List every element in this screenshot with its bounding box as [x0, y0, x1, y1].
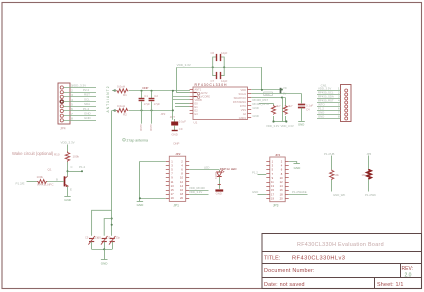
- svg-text:19: 19: [171, 196, 174, 200]
- capacitor C1: [139, 91, 145, 124]
- wire CN1 pin2: [317, 94, 341, 96]
- svg-text:P1.2/E: P1.2/E: [16, 181, 25, 185]
- node crystal cap right rail: [223, 66, 225, 68]
- svg-text:17: 17: [171, 192, 174, 196]
- connector JP4 (left 8-pin header): [58, 83, 70, 124]
- svg-text:LED1: LED1: [214, 172, 218, 179]
- svg-text:VDD_3.3V: VDD_3.3V: [61, 141, 75, 145]
- wire CN1 pin8: [317, 118, 341, 120]
- svg-text:VDD_3.3V: VDD_3.3V: [72, 83, 86, 87]
- wire JP1 pin19 to gnd rail: [140, 198, 166, 200]
- title block outline: [262, 234, 422, 289]
- wire CN1 pin6: [317, 110, 341, 112]
- svg-text:GND: GND: [84, 112, 92, 116]
- connector CN1 (right 8-pin header): [341, 85, 352, 122]
- wire ANT2 to bus: [129, 110, 173, 112]
- wire CN1 pin3: [317, 98, 341, 100]
- svg-text:GND: GND: [216, 192, 222, 196]
- svg-text:P2.2: P2.2: [83, 88, 90, 92]
- capacitor C2: [149, 91, 155, 124]
- svg-text:19: 19: [271, 196, 274, 200]
- svg-text:0.0uH: 0.0uH: [117, 84, 125, 88]
- node SDA drop: [281, 97, 283, 99]
- svg-text:VDDB: VDDB: [195, 98, 202, 102]
- wire bus stub pin4: [173, 99, 190, 101]
- wire R10 to collector node: [67, 162, 69, 177]
- wire JP1 pin1 to gnd rail: [140, 161, 166, 163]
- antenna stub arrow bottom: [112, 109, 115, 112]
- node gnd rail: [139, 197, 141, 199]
- wire U1 SCL row: [251, 93, 301, 95]
- node bus R2 crossing: [172, 109, 174, 111]
- node VDD row junction: [261, 89, 263, 91]
- wire CN1 pin5: [317, 106, 341, 108]
- ground LED bold flag: [215, 191, 223, 196]
- wire CN1 pin4: [317, 102, 341, 104]
- connector JP1 (2x10 header) body: [169, 156, 185, 201]
- ground C9: [172, 131, 178, 137]
- node rail right: [285, 120, 287, 122]
- svg-text:15: 15: [171, 188, 174, 192]
- svg-text:WAKE_NFC: WAKE_NFC: [37, 182, 54, 186]
- resistor R3 pull-up: [272, 104, 276, 122]
- node trunk dot: [111, 224, 113, 226]
- wire pull-up bottom rail: [274, 121, 287, 123]
- svg-text:12pF: 12pF: [221, 79, 228, 83]
- green caption 2 tap antenna: [123, 139, 148, 143]
- svg-text:GND: GND: [172, 132, 178, 136]
- svg-text:RF430CL330H Evaluation Board: RF430CL330H Evaluation Board: [297, 242, 384, 248]
- wire left bus vertical: [172, 91, 174, 120]
- svg-text:C4: C4: [306, 108, 310, 112]
- svg-text:C2: C2: [154, 94, 158, 98]
- svg-text:SCL: SCL: [265, 92, 271, 96]
- U1 left pin stubs: [190, 90, 193, 114]
- svg-text:SDA/POCI: SDA/POCI: [234, 96, 247, 100]
- svg-text:E0: E0: [195, 101, 199, 105]
- svg-text:23p: 23p: [116, 236, 121, 240]
- svg-text:P1.2/WK: P1.2/WK: [365, 193, 376, 197]
- JP4 green pin numbers: [71, 85, 73, 121]
- svg-text:B: B: [56, 178, 58, 182]
- supply tick bar on VDD row: [280, 88, 282, 94]
- wire to ground: [104, 249, 106, 259]
- svg-text:JP3: JP3: [273, 204, 279, 208]
- svg-text:20: 20: [280, 196, 283, 200]
- wire trim cap bottom rail: [92, 249, 113, 251]
- svg-text:2 tap antenna: 2 tap antenna: [127, 139, 148, 143]
- svg-text:10: 10: [180, 176, 183, 180]
- wire CN1 pin1: [317, 90, 341, 92]
- svg-text:Wake circuit (optional): Wake circuit (optional): [12, 151, 54, 156]
- svg-text:12: 12: [280, 180, 283, 184]
- svg-text:100k: 100k: [73, 155, 80, 159]
- svg-text:P1.2: P1.2: [83, 107, 90, 111]
- svg-text:1M: 1M: [362, 173, 367, 177]
- capacitor C4 bypass: [298, 94, 305, 121]
- U1 pin3 bubble marker: [194, 96, 200, 99]
- svg-text:VDD: VDD: [241, 88, 247, 92]
- wire SDA drop to rail: [282, 98, 284, 122]
- svg-text:GND: GND: [294, 166, 302, 170]
- wire branch to CT1: [92, 210, 112, 236]
- ground JP3: [294, 164, 302, 170]
- svg-text:VDD_3.3V: VDD_3.3V: [281, 124, 294, 128]
- wire base segment: [27, 181, 38, 183]
- svg-text:P1.2: P1.2: [252, 171, 258, 175]
- resistor R5: [330, 156, 334, 192]
- JP1 pin numbers: [171, 159, 184, 200]
- node rail left: [272, 120, 274, 122]
- JP1 right pin stubs: [186, 162, 190, 199]
- wire JP4 pin8: [63, 120, 96, 122]
- svg-text:R1: R1: [123, 93, 127, 97]
- capacitor C9 bold (VCORE): [171, 123, 178, 131]
- JP3 right pin stubs: [285, 162, 289, 199]
- svg-text:GND: GND: [137, 203, 145, 207]
- wire JP4 pin4: [63, 101, 96, 103]
- svg-text:12pF: 12pF: [221, 51, 228, 55]
- svg-text:GND: GND: [101, 262, 109, 266]
- svg-text:P1.2/WAKE: P1.2/WAKE: [292, 190, 307, 194]
- wire bus stub pin5: [175, 103, 190, 105]
- capacitor C7 bottom parallel: [213, 67, 225, 79]
- wire JP3 pin2 to gnd: [289, 162, 297, 164]
- svg-text:SDA: SDA: [84, 102, 90, 106]
- svg-text:C6: C6: [211, 51, 215, 55]
- svg-text:Sheet: 1/1: Sheet: 1/1: [377, 282, 404, 288]
- wire JP1 pin16: [189, 190, 208, 192]
- svg-text:12: 12: [180, 180, 183, 184]
- svg-text:VDD_3.3V: VDD_3.3V: [189, 190, 202, 194]
- wire bus stub pin6: [175, 106, 190, 108]
- JP1 left pin stubs: [166, 162, 170, 199]
- svg-text:16: 16: [180, 188, 183, 192]
- svg-text:17pF: 17pF: [144, 102, 151, 106]
- svg-text:GND: GND: [149, 125, 153, 131]
- svg-text:17pF: 17pF: [154, 102, 161, 106]
- U1 pin2 bubble marker: [194, 92, 200, 95]
- wire JP4 pin6: [63, 110, 96, 112]
- node bottom rail: [103, 248, 105, 250]
- node C2 bottom crossing: [151, 109, 153, 111]
- wire VDD drop right side: [261, 67, 263, 90]
- node bus top: [172, 90, 174, 92]
- JP3 left pin stubs: [266, 162, 270, 199]
- wire VDD stub to U1 pin2: [177, 92, 190, 94]
- capacitor C6 top parallel: [213, 54, 225, 67]
- svg-text:Q1: Q1: [48, 167, 52, 171]
- svg-text:RF430CL330H: RF430CL330H: [195, 83, 228, 87]
- wire JP4 pin2: [63, 92, 96, 94]
- svg-text:P1.2: P1.2: [79, 165, 86, 169]
- svg-text:10: 10: [280, 176, 283, 180]
- svg-text:JP6: JP6: [366, 152, 371, 156]
- wire branch to CT2: [104, 219, 112, 236]
- svg-text:2.0: 2.0: [405, 273, 412, 279]
- svg-text:P1.2/UB: P1.2/UB: [324, 152, 335, 156]
- svg-text:GND: GND: [253, 106, 259, 110]
- wire antenna stub top: [112, 90, 116, 92]
- svg-text:17: 17: [271, 192, 274, 196]
- wire VDD drop to left bus: [176, 67, 178, 93]
- svg-text:GND: GND: [253, 114, 259, 118]
- wire R3 feed: [259, 103, 274, 105]
- wire bus stub pin3: [173, 96, 190, 98]
- svg-text:18: 18: [280, 192, 283, 196]
- wire emitter: [67, 186, 69, 196]
- svg-text:0.1uF: 0.1uF: [179, 119, 186, 123]
- svg-text:SCL: SCL: [84, 97, 90, 101]
- wire JP4 pin3: [63, 96, 96, 98]
- svg-text:JP2: JP2: [161, 112, 166, 116]
- svg-text:TITLE:: TITLE:: [264, 255, 280, 261]
- connector JP3 (2x10 header) body: [270, 157, 285, 202]
- wire gnd rail vertical: [139, 161, 141, 201]
- node branch CT2: [111, 218, 113, 220]
- svg-text:GND: GND: [64, 198, 72, 202]
- wire JP3 pin18 right: [289, 194, 308, 196]
- JP3 pin numbers: [271, 160, 283, 201]
- svg-text:16: 16: [280, 188, 283, 192]
- wire U1 SDA row: [251, 97, 285, 99]
- svg-text:ANT1: ANT1: [195, 87, 202, 91]
- node C1 bottom crossing: [141, 109, 143, 111]
- svg-text:A2: A2: [243, 112, 247, 116]
- svg-text:GND: GND: [139, 125, 143, 131]
- svg-text:GND: GND: [84, 116, 92, 120]
- wire collector tap: [68, 171, 83, 173]
- svg-text:4k7: 4k7: [288, 104, 293, 108]
- svg-text:RF430CL330HLv3: RF430CL330HLv3: [292, 256, 345, 262]
- svg-text:C5: C5: [85, 236, 89, 240]
- svg-text:18: 18: [180, 192, 183, 196]
- svg-text:E2: E2: [195, 108, 199, 112]
- node C2 tap: [151, 90, 153, 92]
- svg-text:RST: RST: [84, 93, 90, 97]
- resistor R11 100k horizontal: [37, 180, 47, 184]
- svg-text:14: 14: [180, 184, 183, 188]
- svg-text:C: C: [71, 165, 73, 169]
- svg-text:Document Number:: Document Number:: [264, 268, 315, 274]
- svg-text:ANT2: ANT2: [201, 91, 208, 95]
- svg-text:0.0uH: 0.0uH: [117, 104, 125, 108]
- node crystal cap left rail: [212, 66, 214, 68]
- resistor R1 0R0 horizontal: [116, 89, 128, 93]
- svg-text:C9: C9: [179, 127, 183, 131]
- svg-text:11: 11: [171, 180, 174, 184]
- resistor R6: [367, 156, 371, 192]
- wire JP1 pin6 to LED: [189, 169, 219, 171]
- wire antenna stub bottom: [112, 110, 116, 112]
- wire VDD rail across top: [177, 67, 262, 69]
- ground C4: [298, 122, 305, 127]
- svg-text:C6: C6: [98, 236, 102, 240]
- svg-text:DNP: DNP: [143, 86, 149, 90]
- svg-text:13: 13: [271, 184, 274, 188]
- svg-text:20: 20: [180, 196, 183, 200]
- svg-text:E3: E3: [195, 112, 199, 116]
- svg-text:C1: C1: [144, 94, 148, 98]
- svg-text:LED: LED: [204, 166, 209, 170]
- svg-text:Date: not saved: Date: not saved: [264, 282, 305, 288]
- svg-text:REV:: REV:: [402, 266, 413, 272]
- svg-text:DNP: DNP: [174, 141, 180, 145]
- wire ANT1 to U1: [129, 90, 190, 92]
- svg-text:E1: E1: [195, 105, 199, 109]
- LED D1: [217, 170, 225, 189]
- svg-text:10k: 10k: [334, 173, 339, 177]
- svg-text:VD: VD: [283, 86, 287, 90]
- wire JP4 pin1: [63, 87, 96, 89]
- resistor R2 0R0 horizontal: [116, 108, 128, 112]
- svg-text:GND: GND: [252, 190, 258, 194]
- trimmer capacitor CT1: [88, 236, 94, 249]
- svg-text:INTO: INTO: [240, 104, 246, 108]
- svg-text:C7: C7: [211, 79, 215, 83]
- svg-text:VSS: VSS: [241, 108, 246, 112]
- wire JP3 pin9 left: [258, 174, 267, 176]
- svg-text:4k7: 4k7: [276, 104, 281, 108]
- node row1 cap tap: [281, 89, 283, 91]
- svg-text:JP2: JP2: [175, 152, 181, 156]
- wire JP1 pin18: [189, 194, 208, 196]
- wire U1 VDD pin row: [251, 89, 280, 91]
- wire wake supply: [67, 145, 69, 152]
- svg-text:ANT1/ANT2: ANT1/ANT2: [106, 86, 110, 112]
- svg-text:R10: R10: [54, 153, 60, 157]
- trimmer capacitor CT3: [109, 236, 115, 249]
- wire JP4 pin5: [63, 106, 96, 108]
- svg-text:JP1: JP1: [173, 203, 179, 207]
- node C1 tap: [141, 90, 143, 92]
- svg-text:VDD_3.3V: VDD_3.3V: [177, 63, 191, 67]
- resistor R10 100k vertical: [65, 152, 69, 162]
- U1 right pin stubs: [248, 90, 252, 118]
- svg-text:R2: R2: [123, 113, 127, 117]
- svg-text:13: 13: [171, 184, 174, 188]
- svg-text:VDD_3.3V: VDD_3.3V: [266, 124, 279, 128]
- svg-text:14: 14: [280, 184, 283, 188]
- antenna stub arrow top: [112, 89, 115, 92]
- resistor R4 pull-up: [283, 98, 287, 122]
- svg-text:GND_WK: GND_WK: [333, 193, 345, 197]
- ground JP1 rail: [137, 202, 145, 208]
- svg-text:JP4: JP4: [60, 127, 66, 131]
- D1 tick mark: [218, 184, 221, 186]
- node collector tap end: [81, 170, 83, 172]
- svg-text:E: E: [70, 188, 72, 192]
- svg-text:GND: GND: [298, 123, 304, 127]
- wire CN1 pin7: [317, 114, 341, 116]
- svg-text:15: 15: [271, 188, 274, 192]
- svg-text:VCORE: VCORE: [201, 94, 210, 98]
- U1 right pin names: [233, 88, 247, 120]
- svg-text:GND1: GND1: [239, 116, 247, 120]
- wire base to Q1: [47, 181, 64, 183]
- svg-text:U1: U1: [194, 121, 198, 125]
- ground trim network: [101, 260, 109, 266]
- wire antenna down trunk: [111, 110, 113, 235]
- U1 left pin names: [195, 87, 211, 116]
- trimmer capacitor CT2: [101, 236, 107, 249]
- ground wake emitter: [64, 197, 72, 203]
- svg-text:JP4: JP4: [275, 153, 281, 157]
- svg-text:RST/NMI/A: RST/NMI/A: [233, 100, 246, 104]
- svg-text:GND: GND: [318, 114, 324, 118]
- svg-text:100k: 100k: [37, 175, 44, 179]
- node collector junction: [67, 170, 69, 172]
- wire JP4 pin7: [63, 115, 96, 117]
- framed net label SCL: [264, 92, 273, 96]
- transistor Q1: [65, 176, 69, 186]
- svg-text:SCL/A: SCL/A: [239, 92, 247, 96]
- wire JP3 pin17 left: [258, 194, 267, 196]
- CN1 green pin numbers: [338, 88, 340, 119]
- op IC U1 RF430CL330H body: [193, 87, 248, 120]
